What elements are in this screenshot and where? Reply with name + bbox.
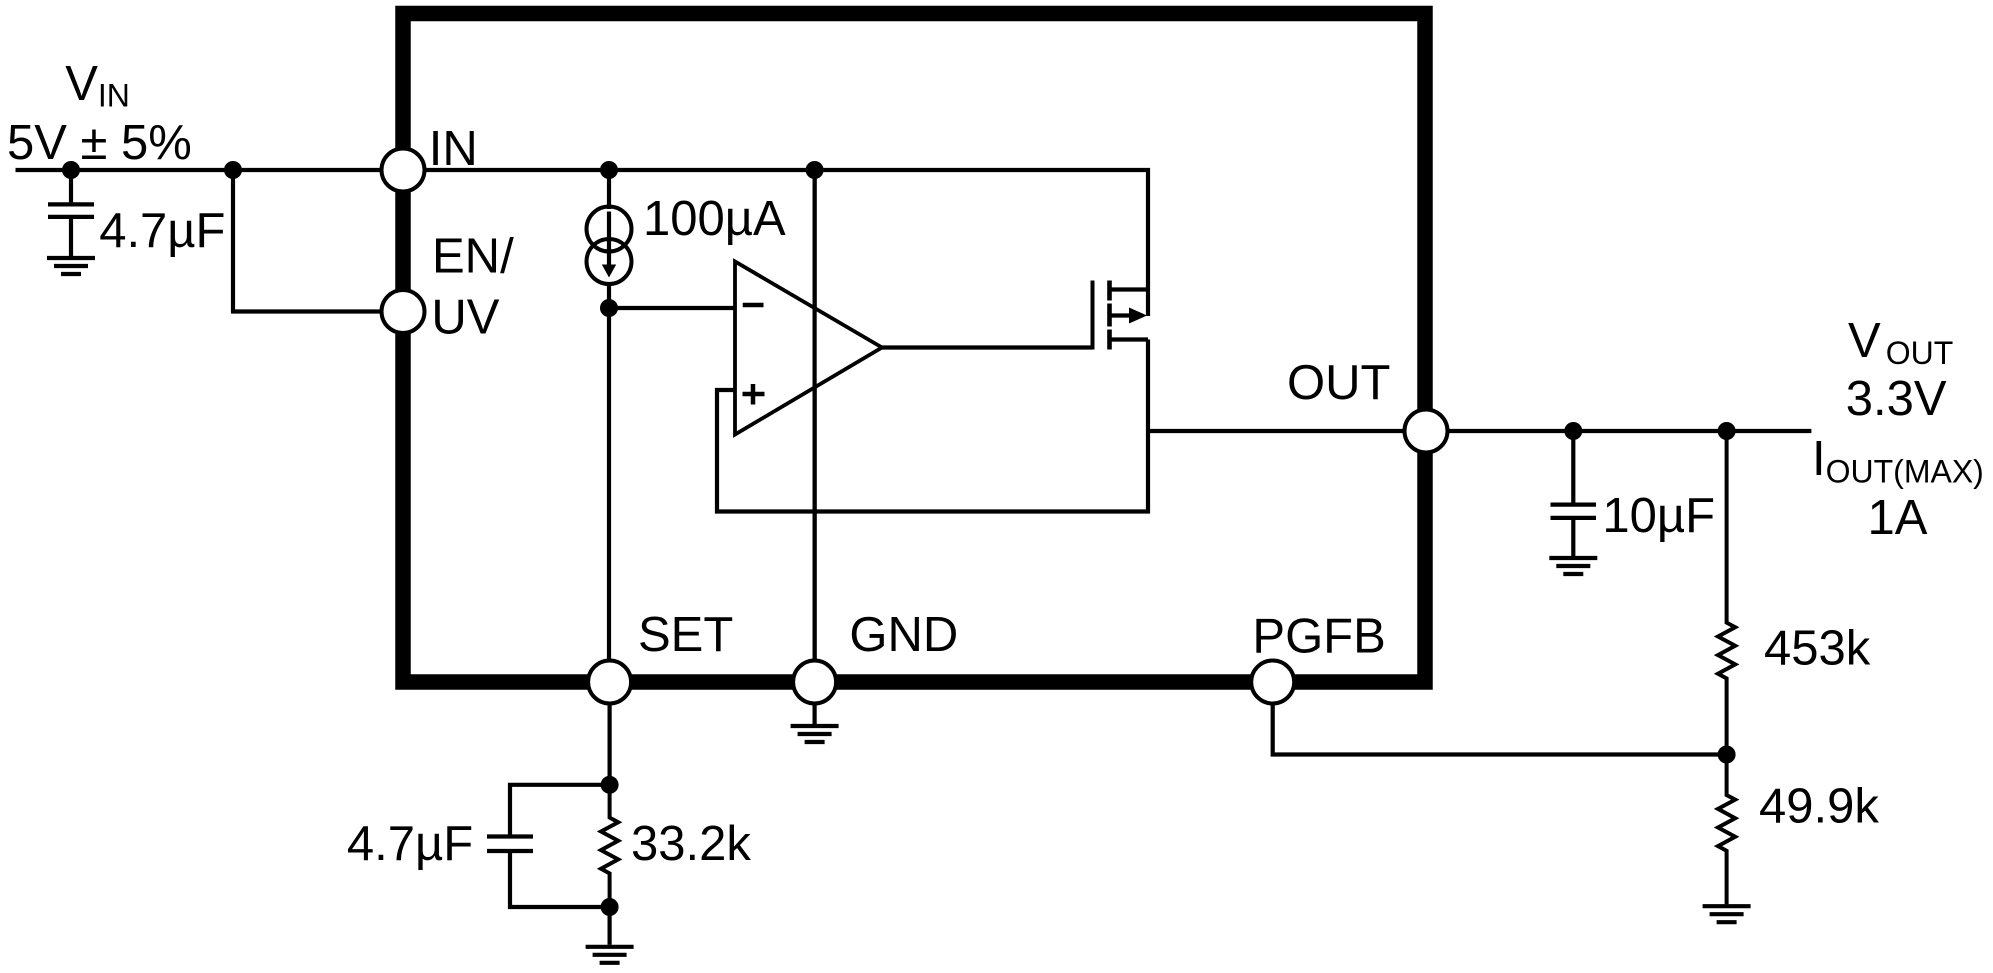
svg-text:453k: 453k — [1764, 622, 1871, 676]
wire GND vertical overlay on op-amp — [812, 170, 816, 682]
node D junction dot GND rail top — [806, 161, 824, 179]
ground below SET network — [586, 947, 634, 963]
wire VIN input rail — [16, 168, 404, 172]
transistor Q1 channel dashes — [1107, 281, 1112, 350]
node G junction dot divider — [1718, 422, 1736, 440]
svg-text:3.3V: 3.3V — [1846, 372, 1947, 426]
wire op-amp output to gate — [882, 345, 1093, 349]
svg-text:10µF: 10µF — [1602, 489, 1715, 543]
transistor Q1 source stub — [1110, 337, 1149, 341]
IC U1 boundary box — [403, 14, 1425, 683]
svg-text:4.7µF: 4.7µF — [347, 817, 473, 871]
svg-text:49.9k: 49.9k — [1759, 780, 1879, 834]
capacitor C1 lead bottom — [69, 219, 73, 256]
svg-text:EN/: EN/ — [432, 230, 514, 284]
wire GND internal vertical — [812, 170, 816, 682]
capacitor C3 branch top — [510, 785, 610, 835]
svg-text:IN: IN — [429, 122, 478, 176]
svg-text:OUT: OUT — [1287, 356, 1390, 410]
op-amp plus sign — [743, 384, 765, 405]
op-amp U1A triangle — [735, 262, 882, 435]
ground below R2 — [1703, 906, 1751, 922]
resistor R2 49.9k — [1718, 755, 1735, 905]
pin IN — [382, 149, 425, 192]
svg-text:PGFB: PGFB — [1252, 610, 1385, 664]
wire current source to minus node — [607, 282, 611, 308]
transistor Q1 body arrow — [1129, 308, 1147, 324]
node C junction dot current source top — [600, 161, 618, 179]
svg-text:5V ± 5%: 5V ± 5% — [7, 116, 192, 170]
svg-text:1A: 1A — [1868, 491, 1928, 545]
svg-text:GND: GND — [849, 608, 958, 662]
svg-text:VIN: VIN — [65, 57, 130, 114]
current source I1 circles — [587, 207, 632, 252]
op-amp minus sign — [743, 303, 764, 308]
pin GND — [793, 661, 836, 704]
node B junction dot EN tie — [224, 161, 242, 179]
resistor R3 33.2k — [601, 785, 618, 907]
wire SET ground stub — [607, 907, 611, 945]
node J junction dot SET bottom — [601, 898, 619, 916]
wire EN/UV tie from input rail — [233, 170, 403, 312]
resistor R1 453k — [1718, 431, 1735, 755]
node A junction dot VIN cap — [62, 161, 80, 179]
capacitor C2 lead bottom — [1571, 520, 1575, 556]
transistor Q1 gate bar — [1091, 281, 1095, 350]
ground below C1 — [47, 258, 95, 274]
svg-text:SET: SET — [638, 608, 733, 662]
pin PGFB — [1251, 661, 1294, 704]
capacitor C2 plates — [1551, 505, 1597, 518]
node E junction dot SET / minus input — [600, 299, 618, 317]
capacitor C1 plates — [48, 204, 94, 217]
ground below GND pin — [812, 704, 816, 725]
wire OUT — [1148, 429, 1811, 433]
wire SET internal vertical — [607, 308, 611, 682]
pin OUT — [1405, 410, 1448, 453]
wire internal IN rail — [403, 170, 1148, 316]
wire minus input — [609, 306, 735, 310]
current source I1 arrow — [607, 212, 611, 267]
capacitor C3 branch bottom — [510, 853, 610, 907]
svg-text:UV: UV — [431, 291, 499, 345]
wire plus input feedback — [717, 340, 1148, 512]
wire PGFB — [1273, 682, 1727, 755]
wire SET external — [607, 682, 611, 785]
svg-text:100µA: 100µA — [643, 192, 786, 246]
transistor Q1 body stub — [1110, 313, 1132, 317]
svg-text:IOUT(MAX): IOUT(MAX) — [1812, 432, 1984, 489]
capacitor C2 lead top — [1571, 431, 1575, 503]
pin SET — [588, 661, 631, 704]
wire rail to current source — [607, 170, 611, 209]
transistor Q1 drain stub — [1110, 287, 1149, 291]
capacitor C1 lead top — [69, 170, 73, 202]
node H junction dot divider midpoint — [1718, 746, 1736, 764]
svg-text:VOUT: VOUT — [1848, 314, 1953, 371]
capacitor C3 plates — [487, 837, 533, 852]
ground below C2 — [1549, 558, 1597, 574]
svg-text:33.2k: 33.2k — [631, 817, 751, 871]
pin EN/UV — [382, 290, 425, 333]
node I junction dot SET top — [601, 776, 619, 794]
node F junction dot 10uF — [1564, 422, 1582, 440]
svg-text:4.7µF: 4.7µF — [99, 204, 225, 258]
